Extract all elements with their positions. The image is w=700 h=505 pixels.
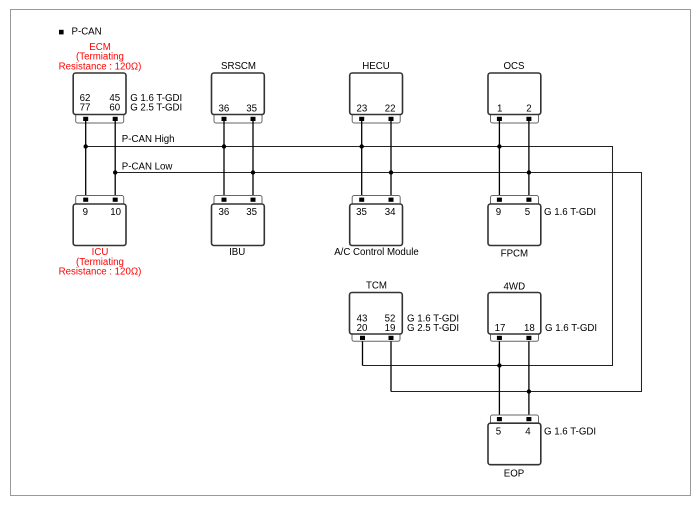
ECM pin 77 terminal <box>83 117 88 121</box>
ICU pin 9 terminal <box>83 198 88 202</box>
module EOP <box>488 415 596 480</box>
module 4WD <box>488 282 597 342</box>
IBU pin 35 terminal <box>251 198 256 202</box>
svg-text:20: 20 <box>357 323 368 334</box>
module ECM <box>73 73 182 123</box>
ICU pin 10 terminal <box>113 198 118 202</box>
node 4WD low junction <box>527 389 531 393</box>
A/C pin 34 terminal <box>389 198 394 202</box>
OCS pin 1 terminal <box>497 117 502 121</box>
node HECU low junction <box>389 170 393 174</box>
P-CAN Low bus line <box>115 173 641 392</box>
4WD pin 18 terminal <box>526 336 531 340</box>
node OCS low junction <box>527 170 531 174</box>
svg-text:1: 1 <box>497 104 502 115</box>
svg-text:17: 17 <box>495 323 506 334</box>
wire SRSCM pin 36 to IBU pin 36 <box>223 121 225 199</box>
node 4WD high junction <box>497 363 501 367</box>
svg-text:EOP: EOP <box>504 469 524 480</box>
svg-text:SRSCM: SRSCM <box>221 61 256 72</box>
node SRSCM high junction <box>222 144 226 148</box>
svg-text:P-CAN: P-CAN <box>72 27 102 38</box>
wire 4WD pin 17 to EOP pin 5 <box>498 341 500 417</box>
TCM pin 20 terminal <box>360 336 365 340</box>
module OCS <box>488 61 541 123</box>
label ICU (Termiating Resistance : 120ohm) <box>59 247 142 277</box>
svg-text:IBU: IBU <box>229 247 245 258</box>
HECU pin 23 terminal <box>359 117 364 121</box>
module IBU <box>212 196 265 259</box>
svg-text:Resistance : 120Ω): Resistance : 120Ω) <box>59 61 142 72</box>
wire SRSCM pin 35 to IBU pin 35 <box>252 121 254 199</box>
IBU pin 36 terminal <box>222 198 227 202</box>
svg-text:P-CAN Low: P-CAN Low <box>122 161 174 172</box>
svg-text:FPCM: FPCM <box>501 248 528 259</box>
svg-text:60: 60 <box>109 102 120 113</box>
svg-text:22: 22 <box>385 104 396 115</box>
FPCM pin 9 terminal <box>497 198 502 202</box>
module SRSCM <box>212 61 265 123</box>
svg-text:Resistance : 120Ω): Resistance : 120Ω) <box>59 267 142 278</box>
svg-text:G 1.6 T-GDI: G 1.6 T-GDI <box>545 323 597 334</box>
wire HECU pin 22 to A/C Control Module pin 34 <box>390 121 392 199</box>
svg-text:2: 2 <box>526 104 531 115</box>
wire OCS pin 2 to FPCM pin 5 <box>528 121 530 199</box>
svg-text:TCM: TCM <box>366 280 387 291</box>
SRSCM pin 35 terminal <box>251 117 256 121</box>
svg-text:9: 9 <box>496 207 501 218</box>
svg-text:P-CAN High: P-CAN High <box>122 134 175 145</box>
P-CAN High bus line <box>86 147 613 366</box>
svg-text:23: 23 <box>357 104 368 115</box>
module FPCM <box>488 196 596 260</box>
svg-text:G 1.6 T-GDI: G 1.6 T-GDI <box>544 207 596 218</box>
node HECU high junction <box>360 144 364 148</box>
wire TCM pin 19 to P-CAN Low <box>390 341 392 391</box>
svg-text:5: 5 <box>496 427 501 438</box>
svg-text:35: 35 <box>246 104 257 115</box>
svg-text:10: 10 <box>110 207 121 218</box>
node ECM low junction <box>113 170 117 174</box>
svg-text:4WD: 4WD <box>504 282 526 293</box>
module A/C Control Module <box>334 196 419 259</box>
svg-text:19: 19 <box>385 323 396 334</box>
svg-text:A/C Control Module: A/C Control Module <box>334 247 419 258</box>
module HECU <box>350 61 403 123</box>
svg-text:G 2.5 T-GDI: G 2.5 T-GDI <box>407 323 459 334</box>
FPCM pin 5 terminal <box>526 198 531 202</box>
svg-text:9: 9 <box>83 207 88 218</box>
svg-text:18: 18 <box>524 323 535 334</box>
4WD pin 17 terminal <box>497 336 502 340</box>
svg-text:OCS: OCS <box>504 61 526 72</box>
svg-text:34: 34 <box>385 207 396 218</box>
EOP pin 5 terminal <box>497 417 502 421</box>
svg-text:G 2.5 T-GDI: G 2.5 T-GDI <box>130 102 182 113</box>
wire TCM pin 20 to P-CAN High <box>362 341 364 365</box>
svg-text:5: 5 <box>525 207 530 218</box>
node OCS high junction <box>497 144 501 148</box>
TCM pin 19 terminal <box>389 336 394 340</box>
section bullet <box>59 30 64 35</box>
SRSCM pin 36 terminal <box>222 117 227 121</box>
wire HECU pin 23 to A/C Control Module pin 35 <box>361 121 363 199</box>
wire ECM pin 77 to ICU pin 9 <box>85 121 87 199</box>
A/C pin 35 terminal <box>359 198 364 202</box>
module TCM <box>350 280 460 341</box>
svg-text:36: 36 <box>219 207 230 218</box>
label ECM (Termiating Resistance : 120ohm) <box>59 42 142 72</box>
svg-text:G 1.6 T-GDI: G 1.6 T-GDI <box>544 427 596 438</box>
svg-text:35: 35 <box>246 207 257 218</box>
module ICU <box>73 196 126 246</box>
svg-text:HECU: HECU <box>362 61 389 72</box>
node SRSCM low junction <box>251 170 255 174</box>
OCS pin 2 terminal <box>526 117 531 121</box>
HECU pin 22 terminal <box>389 117 394 121</box>
wire 4WD pin 18 to EOP pin 4 <box>528 341 530 417</box>
svg-text:4: 4 <box>525 427 531 438</box>
ECM pin 60 terminal <box>113 117 118 121</box>
node ECM high junction <box>84 144 88 148</box>
svg-text:36: 36 <box>219 104 230 115</box>
wire ECM pin 60 to ICU pin 10 <box>114 121 116 199</box>
wire OCS pin 1 to FPCM pin 9 <box>498 121 500 199</box>
svg-text:35: 35 <box>356 207 367 218</box>
svg-text:77: 77 <box>80 102 91 113</box>
EOP pin 4 terminal <box>526 417 531 421</box>
